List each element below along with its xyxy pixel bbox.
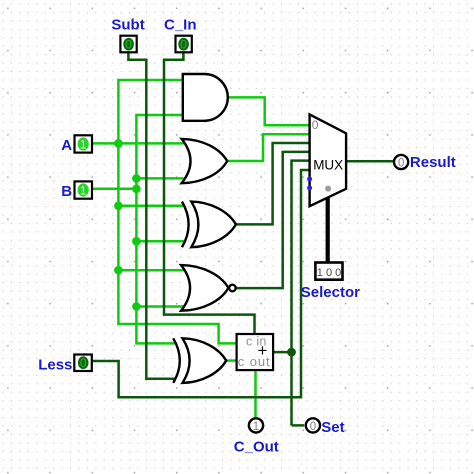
svg-text:1 0 0: 1 0 0: [317, 267, 341, 279]
node B bus / OR bottom: [132, 174, 141, 183]
node B bus / NOR bottom: [132, 302, 141, 311]
wire B pin to bus: [92, 188, 136, 191]
svg-text:B: B: [61, 183, 72, 200]
wire NOR bottom input: [136, 305, 184, 308]
wire C_In bus to adder c_in: [164, 52, 255, 334]
node B wire / B bus: [132, 185, 141, 194]
wire A bus vertical: [118, 80, 236, 343]
adder U6: [237, 334, 274, 370]
wire OR output to MUX in1: [227, 134, 309, 161]
pin Less: [74, 355, 92, 372]
wire XOR2 output to adder: [226, 359, 236, 362]
pin C_In: [176, 36, 192, 53]
wire Less to MUX in5: [92, 170, 309, 397]
svg-text:1: 1: [253, 421, 259, 433]
node B bus / XOR bottom: [132, 237, 141, 246]
pin B: [75, 181, 93, 198]
pin Set (output): [306, 418, 320, 433]
wire XOR bottom input: [136, 240, 184, 243]
pin A: [75, 135, 93, 152]
svg-text:C_Out: C_Out: [234, 439, 279, 456]
svg-text:0: 0: [398, 157, 404, 169]
wire NOR output to MUX in3: [236, 152, 309, 288]
svg-text:MUX: MUX: [313, 158, 343, 173]
wire XOR top input: [118, 205, 184, 208]
svg-text:A: A: [61, 137, 72, 154]
pin Subt: [120, 36, 136, 53]
wire MUX output to Result: [346, 160, 394, 163]
xor-gate U3: [182, 202, 236, 248]
pin C_Out (output): [249, 418, 263, 433]
svg-text:Less: Less: [38, 356, 72, 373]
junction dots: [114, 139, 141, 311]
wire adder c_out to C_Out pin: [254, 370, 257, 417]
node A bus / XOR top: [114, 202, 123, 211]
svg-text:0: 0: [180, 38, 187, 52]
svg-text:c out: c out: [238, 354, 271, 369]
svg-text:Selector: Selector: [301, 284, 360, 301]
wire NOR top input: [118, 269, 184, 272]
svg-text:0: 0: [80, 356, 87, 370]
constant Selector value 100: [315, 263, 342, 280]
node adder sum branch: [287, 348, 296, 357]
node A bus / NOR top: [114, 266, 123, 275]
svg-text:Set: Set: [321, 419, 344, 436]
svg-text:0: 0: [312, 118, 319, 132]
or-gate U2: [182, 139, 228, 183]
svg-text:Result: Result: [410, 154, 456, 171]
svg-text:0: 0: [310, 421, 316, 433]
select bus wire (3-bit, black): [326, 197, 330, 263]
nor-gate U4: [181, 265, 236, 311]
wire B bus vertical: [136, 115, 182, 343]
node A wire / A bus: [114, 139, 123, 148]
wire adder sum branch to Set pin: [292, 424, 305, 427]
wire adder sum to MUX in4: [273, 351, 291, 354]
wire XOR output to MUX in2: [236, 143, 310, 224]
svg-text:C_In: C_In: [164, 16, 197, 33]
xor-gate U5: [173, 338, 226, 383]
svg-text:0: 0: [125, 38, 132, 52]
svg-text:1: 1: [80, 137, 87, 151]
and-gate U1: [183, 74, 228, 121]
wire OR bottom input: [136, 177, 183, 180]
pin Result (output): [394, 155, 408, 170]
mux U7: [307, 114, 346, 206]
wire A pin to OR top input: [92, 142, 184, 145]
wire Subt bus: [128, 52, 175, 378]
wire AND output to MUX in0: [228, 97, 310, 125]
svg-text:Subt: Subt: [111, 16, 144, 33]
svg-text:1: 1: [80, 183, 87, 197]
